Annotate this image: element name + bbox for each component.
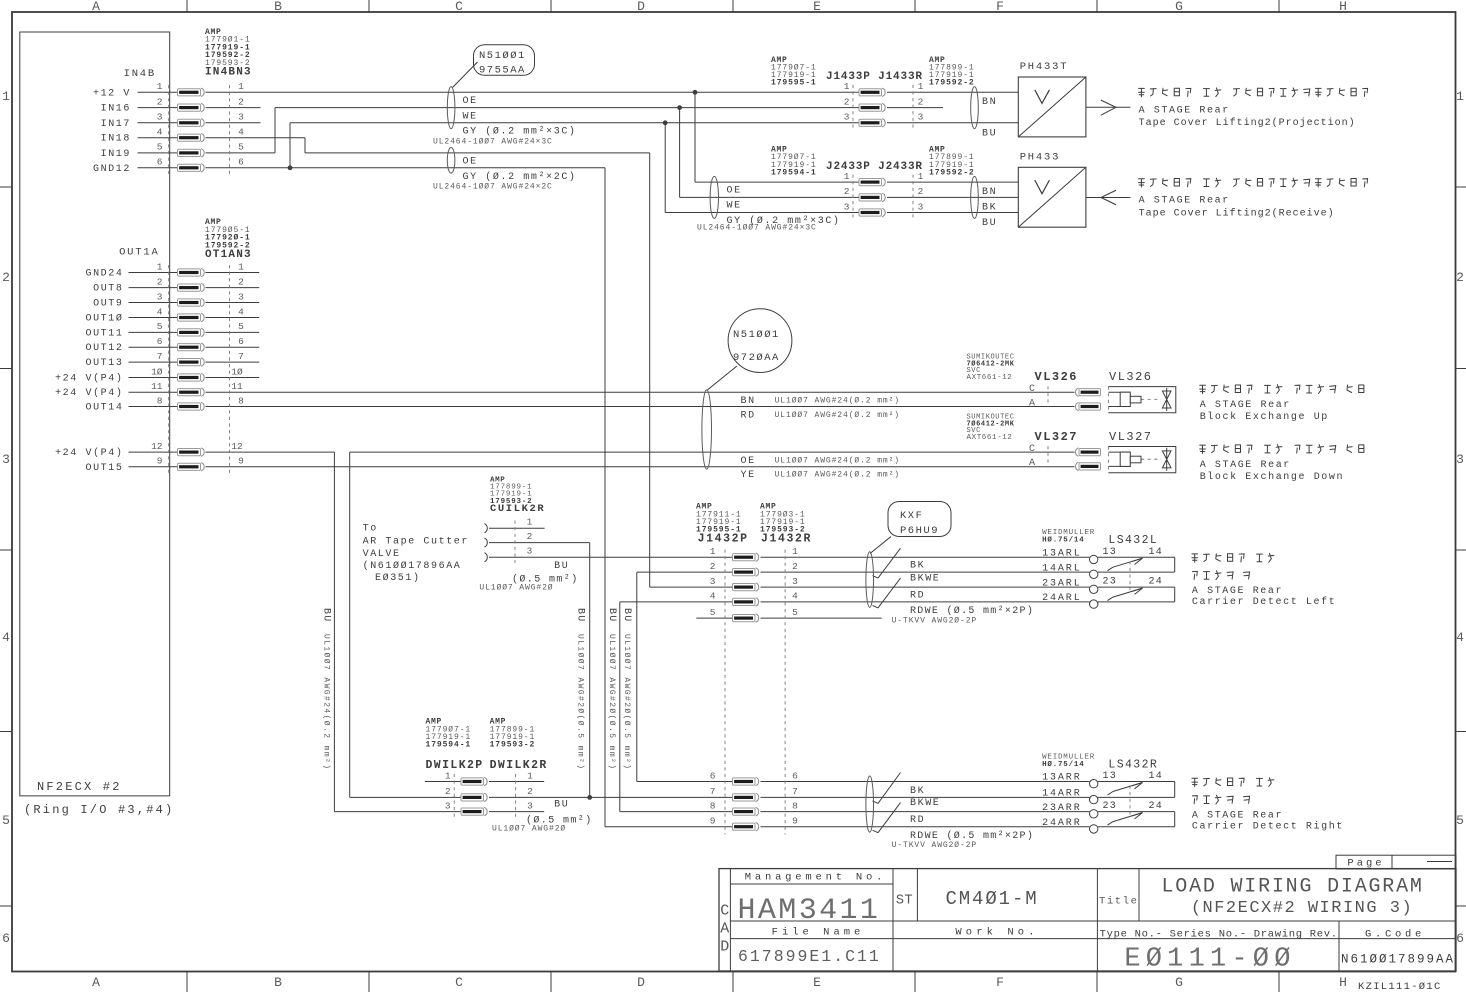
svg-text:3: 3 xyxy=(527,800,533,811)
svg-text:G: G xyxy=(1175,0,1183,14)
svg-text:WE: WE xyxy=(727,201,742,212)
svg-text:IN19: IN19 xyxy=(101,149,131,160)
svg-text:C: C xyxy=(720,903,729,920)
svg-text:3: 3 xyxy=(710,576,716,587)
svg-text:AXT661-12: AXT661-12 xyxy=(967,374,1013,382)
svg-text:8: 8 xyxy=(710,800,716,811)
svg-text:UL2464-1ØØ7 AWG#24×3C: UL2464-1ØØ7 AWG#24×3C xyxy=(433,137,553,146)
svg-text:1: 1 xyxy=(445,770,451,781)
svg-text:11: 11 xyxy=(151,381,163,392)
svg-text:H: H xyxy=(1339,975,1347,990)
svg-text:4: 4 xyxy=(1456,630,1464,645)
svg-text:OE: OE xyxy=(727,185,742,196)
svg-text:23: 23 xyxy=(1103,577,1118,588)
svg-text:AR Tape Cutter: AR Tape Cutter xyxy=(363,537,469,548)
svg-text:4: 4 xyxy=(792,591,798,602)
svg-text:2: 2 xyxy=(2,270,10,285)
svg-text:6: 6 xyxy=(2,931,10,946)
svg-text:IN18: IN18 xyxy=(101,134,131,145)
svg-text:5: 5 xyxy=(157,142,163,153)
svg-text:5: 5 xyxy=(157,321,163,332)
svg-text:6: 6 xyxy=(1456,931,1464,946)
svg-text:E: E xyxy=(813,0,821,14)
svg-text:UL1ØØ7 AWG#2Ø(Ø.5 mm²): UL1ØØ7 AWG#2Ø(Ø.5 mm²) xyxy=(576,634,585,770)
svg-text:RD: RD xyxy=(910,815,925,826)
svg-text:1: 1 xyxy=(710,546,716,557)
svg-text:RD: RD xyxy=(910,590,925,601)
svg-text:EØ351): EØ351) xyxy=(375,572,421,584)
svg-text:1: 1 xyxy=(918,81,924,92)
svg-text:12: 12 xyxy=(151,441,163,452)
svg-text:6: 6 xyxy=(238,336,244,347)
svg-text:3: 3 xyxy=(527,545,533,556)
svg-text:1: 1 xyxy=(238,81,244,92)
svg-text:OE: OE xyxy=(463,96,478,107)
svg-text:4: 4 xyxy=(157,306,163,317)
svg-text:B: B xyxy=(274,0,282,14)
svg-text:C: C xyxy=(1029,444,1035,455)
svg-text:AXT661-12: AXT661-12 xyxy=(967,434,1013,442)
svg-text:LS432R: LS432R xyxy=(1108,759,1158,772)
svg-text:3: 3 xyxy=(238,291,244,302)
svg-text:179595-1: 179595-1 xyxy=(771,79,817,88)
svg-text:2: 2 xyxy=(710,561,716,572)
svg-text:617899E1.C11: 617899E1.C11 xyxy=(738,947,881,966)
svg-text:24ARL: 24ARL xyxy=(1042,593,1082,604)
svg-text:HAM3411: HAM3411 xyxy=(738,894,881,928)
svg-text:1: 1 xyxy=(792,546,798,557)
svg-text:N51ØØ1: N51ØØ1 xyxy=(733,329,780,341)
svg-text:J1432R: J1432R xyxy=(761,533,812,546)
svg-text:3: 3 xyxy=(157,112,163,123)
svg-text:(Ring I/O #3,#4): (Ring I/O #3,#4) xyxy=(24,803,174,817)
svg-text:3: 3 xyxy=(2,452,10,467)
svg-text:C: C xyxy=(1029,384,1035,395)
svg-text:F: F xyxy=(996,975,1004,990)
svg-text:179593-2: 179593-2 xyxy=(490,741,536,750)
svg-text:OE: OE xyxy=(741,456,756,467)
svg-text:5: 5 xyxy=(710,607,716,618)
svg-text:14: 14 xyxy=(1149,547,1164,558)
svg-text:BK: BK xyxy=(910,561,925,572)
svg-text:BN: BN xyxy=(741,396,756,407)
svg-text:+24 V(P4): +24 V(P4) xyxy=(55,447,123,459)
svg-text:GY (Ø.2 mm²×3C): GY (Ø.2 mm²×3C) xyxy=(463,126,577,138)
svg-text:7: 7 xyxy=(157,351,163,362)
svg-text:3: 3 xyxy=(445,800,451,811)
svg-text:N51ØØ1: N51ØØ1 xyxy=(479,50,526,62)
svg-text:179592-2: 179592-2 xyxy=(929,168,975,177)
svg-text:BK: BK xyxy=(982,202,997,213)
svg-text:12: 12 xyxy=(231,441,243,452)
svg-text:A STAGE Rear: A STAGE Rear xyxy=(1200,460,1291,471)
svg-text:1: 1 xyxy=(157,81,163,92)
svg-text:2: 2 xyxy=(238,276,244,287)
svg-text:4: 4 xyxy=(157,127,163,138)
svg-text:BKWE: BKWE xyxy=(910,798,940,809)
svg-text:A STAGE Rear: A STAGE Rear xyxy=(1192,586,1283,597)
svg-text:+24 V(P4): +24 V(P4) xyxy=(55,373,123,385)
svg-text:File Name: File Name xyxy=(772,927,865,939)
svg-text:179594-1: 179594-1 xyxy=(426,741,472,750)
svg-text:D: D xyxy=(720,939,729,956)
svg-text:9: 9 xyxy=(238,456,244,467)
svg-text:24: 24 xyxy=(1149,801,1164,812)
svg-text:OUT1A: OUT1A xyxy=(119,247,160,259)
svg-text:Work No.: Work No. xyxy=(955,927,1038,939)
svg-text:UL1ØØ7 AWG#24(Ø.2 mm²): UL1ØØ7 AWG#24(Ø.2 mm²) xyxy=(775,456,900,465)
svg-text:J2433P J2433R: J2433P J2433R xyxy=(826,161,923,173)
svg-text:OUT14: OUT14 xyxy=(85,403,123,414)
svg-text:972ØAA: 972ØAA xyxy=(733,352,780,364)
svg-text:F: F xyxy=(996,0,1004,14)
svg-text:23ARL: 23ARL xyxy=(1042,578,1082,589)
svg-text:1: 1 xyxy=(918,171,924,182)
svg-text:A: A xyxy=(720,921,729,938)
svg-text:C: C xyxy=(455,975,463,990)
svg-text:3: 3 xyxy=(792,576,798,587)
svg-text:3: 3 xyxy=(918,201,924,212)
svg-text:YE: YE xyxy=(741,470,756,481)
svg-text:1: 1 xyxy=(157,261,163,272)
svg-text:OUT8: OUT8 xyxy=(93,284,123,295)
svg-text:24: 24 xyxy=(1149,577,1164,588)
svg-text:8: 8 xyxy=(157,395,163,406)
svg-text:9755AA: 9755AA xyxy=(479,65,526,77)
svg-text:1: 1 xyxy=(1456,89,1464,104)
svg-text:G.Code: G.Code xyxy=(1365,929,1425,941)
svg-text:OE: OE xyxy=(463,157,478,168)
svg-text:HØ.75/14: HØ.75/14 xyxy=(1042,760,1084,769)
svg-text:13ARL: 13ARL xyxy=(1042,548,1082,559)
svg-text:A STAGE Rear: A STAGE Rear xyxy=(1139,196,1230,207)
svg-text:OUT1Ø: OUT1Ø xyxy=(85,313,123,325)
svg-text:BU: BU xyxy=(982,218,997,229)
svg-text:PH433T: PH433T xyxy=(1020,61,1069,73)
svg-text:2: 2 xyxy=(844,96,850,107)
svg-text:BU: BU xyxy=(982,128,997,139)
svg-text:Carrier Detect Right: Carrier Detect Right xyxy=(1192,821,1344,833)
svg-text:LOAD WIRING DIAGRAM: LOAD WIRING DIAGRAM xyxy=(1161,876,1423,899)
svg-text:LS432L: LS432L xyxy=(1108,534,1158,547)
svg-text:GND12: GND12 xyxy=(93,164,131,175)
svg-text:EØ111-ØØ: EØ111-ØØ xyxy=(1124,945,1295,975)
svg-text:1Ø: 1Ø xyxy=(231,366,243,377)
svg-text:4: 4 xyxy=(2,630,10,645)
svg-text:DWILK2P: DWILK2P xyxy=(426,759,484,772)
svg-text:23: 23 xyxy=(1103,801,1118,812)
svg-text:BU: BU xyxy=(554,561,569,572)
svg-text:Title: Title xyxy=(1099,896,1139,908)
svg-text:3: 3 xyxy=(157,291,163,302)
svg-text:UL1ØØ7 AWG#24(Ø.2 mm²): UL1ØØ7 AWG#24(Ø.2 mm²) xyxy=(322,634,331,770)
svg-text:11: 11 xyxy=(231,381,243,392)
svg-text:6: 6 xyxy=(710,770,716,781)
svg-text:1: 1 xyxy=(844,81,850,92)
svg-text:13: 13 xyxy=(1103,771,1118,782)
svg-text:IN4B: IN4B xyxy=(124,68,156,80)
svg-text:BK: BK xyxy=(910,786,925,797)
svg-text:UL1ØØ7 AWG#2Ø(Ø.5 mm²): UL1ØØ7 AWG#2Ø(Ø.5 mm²) xyxy=(607,634,616,770)
svg-text:A: A xyxy=(1029,398,1035,409)
svg-text:B: B xyxy=(274,975,282,990)
svg-text:5: 5 xyxy=(792,607,798,618)
svg-text:A: A xyxy=(92,975,100,990)
svg-text:2: 2 xyxy=(792,561,798,572)
svg-text:Carrier Detect Left: Carrier Detect Left xyxy=(1192,596,1336,608)
svg-text:(N61ØØ17896AA: (N61ØØ17896AA xyxy=(363,560,462,572)
svg-text:VALVE: VALVE xyxy=(363,549,401,560)
svg-text:UL1ØØ7 AWG#24(Ø.2 mm²): UL1ØØ7 AWG#24(Ø.2 mm²) xyxy=(775,411,900,420)
svg-text:VL326: VL326 xyxy=(1035,370,1079,384)
svg-text:J1432P: J1432P xyxy=(698,533,749,546)
svg-text:Tape Cover Lifting2(Receive): Tape Cover Lifting2(Receive) xyxy=(1139,207,1335,219)
svg-text:7: 7 xyxy=(238,351,244,362)
svg-text:13: 13 xyxy=(1103,547,1118,558)
svg-text:CM4Ø1-M: CM4Ø1-M xyxy=(945,888,1038,910)
svg-text:A STAGE Rear: A STAGE Rear xyxy=(1139,105,1230,116)
svg-text:RDWE (Ø.5 mm²×2P): RDWE (Ø.5 mm²×2P) xyxy=(910,830,1034,842)
svg-text:23ARR: 23ARR xyxy=(1042,803,1082,814)
svg-text:4: 4 xyxy=(710,591,716,602)
svg-text:U-TKVV AWG2Ø-2P: U-TKVV AWG2Ø-2P xyxy=(892,616,978,625)
svg-text:UL1ØØ7 AWG#2Ø: UL1ØØ7 AWG#2Ø xyxy=(479,583,553,592)
svg-text:E: E xyxy=(813,975,821,990)
svg-text:UL1ØØ7 AWG#2Ø: UL1ØØ7 AWG#2Ø xyxy=(492,824,566,833)
svg-text:7: 7 xyxy=(710,786,716,797)
svg-text:6: 6 xyxy=(792,770,798,781)
svg-text:UL1ØØ7 AWG#2Ø(Ø.5 mm²): UL1ØØ7 AWG#2Ø(Ø.5 mm²) xyxy=(622,634,631,770)
svg-text:5: 5 xyxy=(238,142,244,153)
svg-text:9: 9 xyxy=(157,456,163,467)
svg-text:A: A xyxy=(1029,458,1035,469)
svg-text:4: 4 xyxy=(238,127,244,138)
svg-text:2: 2 xyxy=(238,96,244,107)
svg-text:2: 2 xyxy=(918,186,924,197)
svg-text:KZIL111-Ø1C: KZIL111-Ø1C xyxy=(1358,981,1442,992)
svg-text:BN: BN xyxy=(982,187,997,198)
svg-text:9: 9 xyxy=(710,816,716,827)
svg-text:UL2464-1ØØ7 AWG#24×2C: UL2464-1ØØ7 AWG#24×2C xyxy=(433,182,553,191)
svg-text:H: H xyxy=(1339,0,1347,14)
svg-text:2: 2 xyxy=(1456,270,1464,285)
svg-text:1Ø: 1Ø xyxy=(151,366,163,377)
svg-text:2: 2 xyxy=(445,786,451,797)
svg-text:RD: RD xyxy=(741,410,756,421)
svg-text:ST: ST xyxy=(896,894,913,909)
svg-text:7: 7 xyxy=(792,786,798,797)
svg-text:UL1ØØ7 AWG#24(Ø.2 mm²): UL1ØØ7 AWG#24(Ø.2 mm²) xyxy=(775,397,900,406)
svg-text:2: 2 xyxy=(157,96,163,107)
svg-text:179592-2: 179592-2 xyxy=(929,79,975,88)
svg-text:DWILK2R: DWILK2R xyxy=(490,759,548,772)
svg-text:24ARR: 24ARR xyxy=(1042,818,1082,829)
svg-text:BU: BU xyxy=(575,608,586,622)
svg-text:C: C xyxy=(455,0,463,14)
svg-text:179594-1: 179594-1 xyxy=(771,168,817,177)
svg-text:1: 1 xyxy=(527,516,533,527)
svg-text:A STAGE Rear: A STAGE Rear xyxy=(1192,811,1283,822)
svg-text:BU: BU xyxy=(554,799,569,810)
svg-text:Type No.- Series No.- Drawing: Type No.- Series No.- Drawing Rev. xyxy=(1100,929,1338,941)
svg-text:IN17: IN17 xyxy=(101,119,131,130)
svg-text:6: 6 xyxy=(157,336,163,347)
svg-text:UL1ØØ7 AWG#24(Ø.2 mm²): UL1ØØ7 AWG#24(Ø.2 mm²) xyxy=(775,471,900,480)
svg-text:BKWE: BKWE xyxy=(910,574,940,585)
svg-text:A STAGE Rear: A STAGE Rear xyxy=(1200,400,1291,411)
svg-text:To: To xyxy=(363,524,378,535)
svg-text:14: 14 xyxy=(1149,771,1164,782)
svg-text:BU: BU xyxy=(621,608,632,622)
svg-text:14ARR: 14ARR xyxy=(1042,789,1082,800)
svg-text:IN16: IN16 xyxy=(101,104,131,115)
svg-text:3: 3 xyxy=(238,112,244,123)
svg-text:14ARL: 14ARL xyxy=(1042,563,1082,574)
svg-text:Page: Page xyxy=(1347,858,1384,870)
svg-text:OUT11: OUT11 xyxy=(85,328,123,339)
svg-text:IN4BN3: IN4BN3 xyxy=(205,66,252,78)
svg-text:3: 3 xyxy=(918,112,924,123)
svg-text:OT1AN3: OT1AN3 xyxy=(205,249,252,261)
svg-text:2: 2 xyxy=(527,531,533,542)
svg-text:4: 4 xyxy=(238,306,244,317)
svg-text:BU: BU xyxy=(321,608,332,622)
svg-text:P6HU9: P6HU9 xyxy=(900,525,939,537)
svg-text:VL327: VL327 xyxy=(1035,430,1079,444)
svg-text:3: 3 xyxy=(844,112,850,123)
svg-text:D: D xyxy=(637,0,645,14)
svg-text:UL2464-1ØØ7 AWG#24×3C: UL2464-1ØØ7 AWG#24×3C xyxy=(697,223,817,232)
svg-text:6: 6 xyxy=(238,157,244,168)
svg-text:KXF: KXF xyxy=(900,510,923,522)
svg-text:Block Exchange Down: Block Exchange Down xyxy=(1200,471,1344,483)
svg-text:RDWE (Ø.5 mm²×2P): RDWE (Ø.5 mm²×2P) xyxy=(910,605,1034,617)
svg-text:9: 9 xyxy=(792,816,798,827)
svg-text:5: 5 xyxy=(2,813,10,828)
svg-text:WE: WE xyxy=(463,111,478,122)
svg-text:+12 V: +12 V xyxy=(93,88,131,99)
svg-text:Management No.: Management No. xyxy=(745,872,886,884)
svg-text:G: G xyxy=(1175,975,1183,990)
svg-text:Tape Cover Lifting2(Projection: Tape Cover Lifting2(Projection) xyxy=(1139,117,1356,129)
svg-text:GND24: GND24 xyxy=(85,269,123,280)
svg-text:U-TKVV AWG2Ø-2P: U-TKVV AWG2Ø-2P xyxy=(892,841,978,850)
svg-text:1: 1 xyxy=(2,89,10,104)
svg-text:J1433P J1433R: J1433P J1433R xyxy=(826,71,923,83)
svg-text:179593-2: 179593-2 xyxy=(490,498,532,506)
svg-text:HØ.75/14: HØ.75/14 xyxy=(1042,536,1084,545)
svg-text:OUT15: OUT15 xyxy=(85,463,123,474)
svg-text:6: 6 xyxy=(157,157,163,168)
svg-text:2: 2 xyxy=(918,96,924,107)
svg-text:A: A xyxy=(92,0,100,14)
svg-text:1: 1 xyxy=(844,171,850,182)
svg-text:2: 2 xyxy=(844,186,850,197)
svg-text:3: 3 xyxy=(844,201,850,212)
svg-text:VL326: VL326 xyxy=(1109,370,1153,384)
svg-text:3: 3 xyxy=(1456,452,1464,467)
svg-text:NF2ECX #2: NF2ECX #2 xyxy=(37,780,122,794)
svg-text:N61ØØ17899AA: N61ØØ17899AA xyxy=(1341,953,1455,967)
svg-text:2: 2 xyxy=(527,786,533,797)
svg-text:GY (Ø.2 mm²×2C): GY (Ø.2 mm²×2C) xyxy=(463,171,577,183)
svg-text:+24 V(P4): +24 V(P4) xyxy=(55,387,123,399)
svg-text:D: D xyxy=(637,975,645,990)
svg-text:1: 1 xyxy=(238,261,244,272)
svg-text:BN: BN xyxy=(982,97,997,108)
svg-text:OUT9: OUT9 xyxy=(93,299,123,310)
svg-text:8: 8 xyxy=(792,800,798,811)
svg-text:VL327: VL327 xyxy=(1109,430,1153,444)
svg-text:BU: BU xyxy=(606,608,617,622)
svg-text:OUT13: OUT13 xyxy=(85,358,123,369)
svg-text:Block Exchange Up: Block Exchange Up xyxy=(1200,411,1329,423)
svg-text:PH433: PH433 xyxy=(1020,151,1061,163)
svg-text:8: 8 xyxy=(238,395,244,406)
svg-text:2: 2 xyxy=(157,276,163,287)
svg-text:1: 1 xyxy=(527,770,533,781)
svg-text:5: 5 xyxy=(1456,813,1464,828)
svg-text:OUT12: OUT12 xyxy=(85,343,123,354)
svg-text:13ARR: 13ARR xyxy=(1042,773,1082,784)
svg-text:5: 5 xyxy=(238,321,244,332)
svg-text:(NF2ECX#2 WIRING 3): (NF2ECX#2 WIRING 3) xyxy=(1191,899,1413,918)
